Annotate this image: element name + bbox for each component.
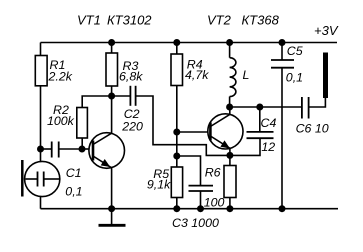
wire: C5 bottom lead to ground rail (crosses tank wire)	[281, 68, 283, 209]
wire: R5 bottom lead	[176, 198, 178, 209]
wire: VT2 collector up to tank node	[229, 107, 231, 114]
wire: C3 bottom lead	[200, 191, 202, 209]
antenna WA1	[323, 53, 328, 99]
svg-text:VT2: VT2	[207, 13, 232, 28]
svg-text:C4: C4	[261, 116, 277, 130]
transistor VT1 (KT3102, NPN)	[89, 133, 125, 169]
wire: R3 top lead	[111, 43, 113, 54]
svg-text:100k: 100k	[47, 114, 75, 128]
svg-text:C3 1000: C3 1000	[172, 216, 219, 230]
wire: R3 bottom lead	[111, 86, 113, 96]
capacitor C1 (coupling)	[52, 142, 59, 158]
wire: node A down to node B	[176, 132, 178, 156]
wire: R1 bottom to mic node	[40, 86, 42, 149]
capacitor C5	[271, 60, 294, 68]
svg-text:+3V: +3V	[314, 23, 339, 38]
wire: C2 right plate to VT2 emitter net	[136, 96, 230, 155]
node: mic / C1 junction	[37, 146, 44, 153]
svg-text:R6: R6	[205, 166, 221, 180]
wire: C1 right plate to R2/base node	[59, 148, 82, 150]
wire: VT2 emitter down	[229, 148, 231, 155]
node: C3 / ground rail	[197, 205, 204, 212]
svg-text:КТ3102: КТ3102	[107, 13, 152, 28]
node A: R4/R5/VT2-base junction	[173, 129, 180, 136]
node: R5 / ground rail	[173, 205, 180, 212]
wire: VT2 base lead	[177, 131, 210, 133]
node: C1/R2/VT1-base junction	[79, 146, 86, 153]
wire: R2 bottom lead	[81, 138, 83, 149]
ground symbol	[99, 205, 126, 225]
wire: node B to C3 top lead	[177, 156, 201, 186]
node: top rail / L	[226, 39, 233, 46]
wire: C4 top lead	[259, 107, 261, 132]
svg-text:C6 10: C6 10	[296, 121, 329, 135]
svg-text:КТ368: КТ368	[242, 13, 280, 28]
svg-text:100: 100	[204, 196, 225, 210]
wire: node B down to R5	[176, 156, 178, 167]
wire: emitter node down to R6	[229, 155, 231, 165]
wire: R4 top lead	[176, 43, 178, 55]
wire: R4 bottom to base node	[176, 86, 178, 133]
wire: emitter node to C4 bottom lead	[230, 138, 260, 155]
node: top rail / R4	[173, 39, 180, 46]
resistor R4	[171, 54, 183, 86]
transistor VT2 (KT368, NPN)	[208, 114, 243, 149]
node: R6 / ground rail	[226, 205, 233, 212]
wire: VT1 collector up to node	[111, 96, 113, 133]
svg-text:220: 220	[121, 120, 143, 134]
node: C4 top tap on tank wire	[256, 104, 263, 111]
svg-text:2.2k: 2.2k	[48, 70, 73, 84]
inductor L	[230, 43, 236, 108]
wire: bottom ground rail	[41, 208, 339, 210]
wire: node to C1 left plate	[41, 148, 52, 150]
microphone BM1 (electret)	[22, 149, 60, 209]
svg-text:C5: C5	[287, 44, 303, 58]
svg-text:0,1: 0,1	[65, 185, 82, 199]
node: top rail / R3	[108, 39, 115, 46]
node: R3/R2/C2/VT1-collector junction	[108, 93, 115, 100]
wire: left branch vertical top (rail to R1)	[40, 43, 42, 56]
wire: C5 top lead	[281, 43, 283, 61]
resistor R5	[171, 167, 182, 198]
wire: C6 right plate to antenna	[309, 98, 326, 107]
node B: R5/C3 junction	[173, 153, 180, 160]
wire: VT1 base lead	[82, 148, 93, 150]
resistor R3	[106, 53, 118, 86]
node: L bottom / VT2 collector / tank	[226, 104, 233, 111]
svg-text:6,8k: 6,8k	[119, 70, 143, 84]
resistor R6	[224, 166, 236, 198]
capacitor C2	[130, 86, 135, 106]
resistor R2	[77, 108, 88, 139]
node: top rail / C5	[279, 39, 286, 46]
svg-text:4,7k: 4,7k	[185, 68, 209, 82]
svg-text:9,1k: 9,1k	[147, 178, 171, 192]
wire: R2 top lead to collector node	[82, 96, 111, 108]
node: emitter/R6/C4 junction	[226, 152, 233, 159]
resistor R1	[35, 56, 47, 86]
wire: tank node to C6	[230, 106, 302, 108]
svg-text:VT1: VT1	[77, 13, 101, 28]
svg-text:C1: C1	[66, 166, 82, 180]
capacitor C6	[302, 97, 309, 119]
svg-text:12: 12	[261, 140, 275, 154]
svg-text:0,1: 0,1	[286, 71, 303, 85]
wire: node to C2 left plate	[112, 95, 130, 97]
wire: R6 bottom lead	[229, 198, 231, 209]
wire: VT1 emitter down to ground rail	[111, 168, 113, 209]
wire: +3V top supply rail	[41, 42, 338, 44]
svg-text:L: L	[243, 68, 250, 82]
node: C5 / ground rail	[279, 205, 286, 212]
capacitor C4	[247, 132, 274, 138]
capacitor C3	[189, 186, 214, 191]
